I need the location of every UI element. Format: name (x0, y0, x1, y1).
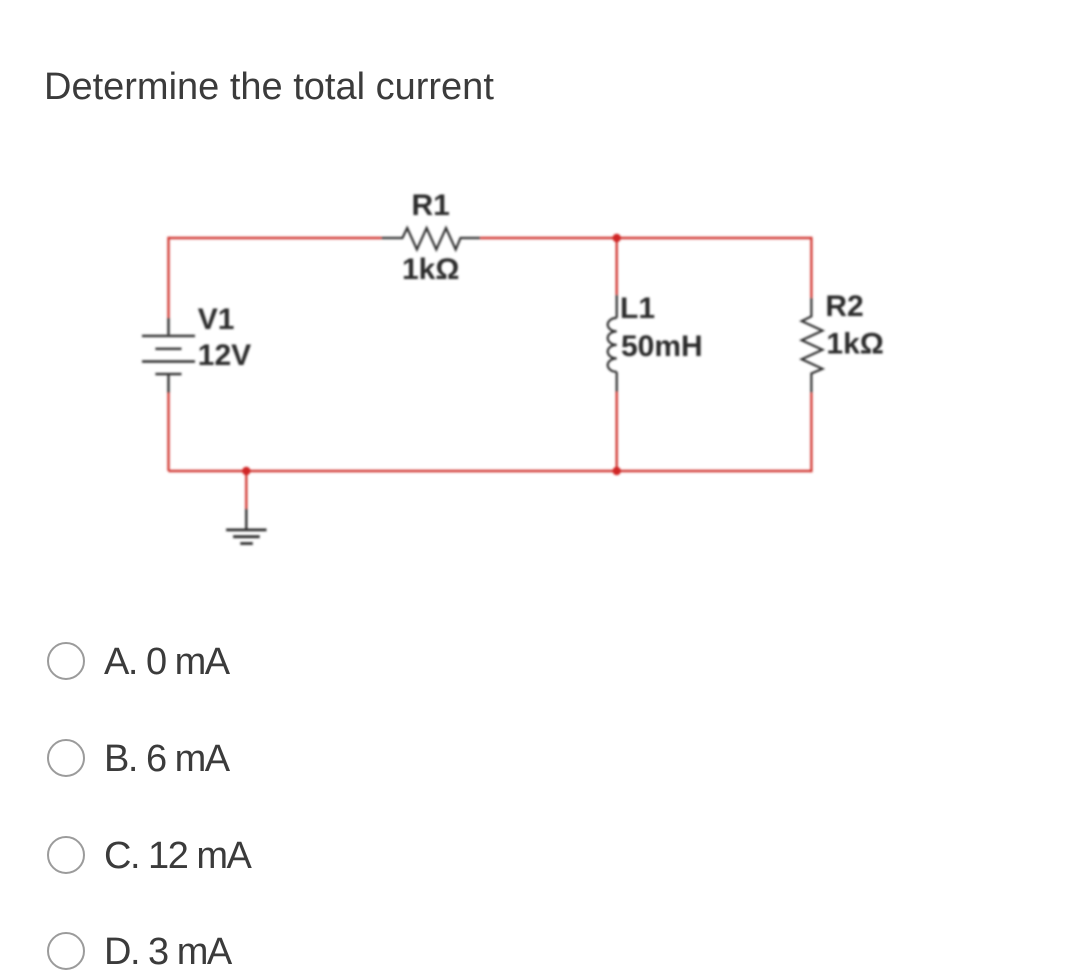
answer option A (47, 642, 647, 682)
node junction dot top middle (613, 234, 621, 242)
node junction dot bottom ground (242, 467, 250, 475)
radio button D (47, 932, 85, 970)
radio button A (47, 642, 85, 680)
radio button B (47, 739, 85, 777)
inductor L1 (608, 295, 617, 392)
node junction dot bottom middle (613, 467, 621, 475)
answer option D (47, 932, 647, 972)
wire bottom horizontal (169, 470, 812, 472)
svg-text:L1: L1 (620, 292, 655, 325)
wire middle branch upper (616, 238, 618, 295)
wire left vertical upper (167, 237, 169, 318)
svg-text:R1: R1 (412, 189, 450, 222)
resistor R2 (802, 298, 823, 393)
radio button C (47, 836, 85, 874)
answer option B (47, 739, 647, 779)
svg-text:1kΩ: 1kΩ (826, 328, 883, 361)
question title (44, 66, 494, 109)
resistor R1 (381, 228, 480, 250)
wire right vertical upper (810, 237, 812, 298)
svg-text:V1: V1 (198, 303, 235, 336)
svg-text:50mH: 50mH (621, 330, 703, 363)
svg-text:12V: 12V (198, 339, 251, 372)
wire left vertical lower (167, 393, 169, 471)
wire middle branch lower (616, 392, 618, 471)
svg-text:1kΩ: 1kΩ (402, 253, 459, 286)
wire ground stub red (245, 471, 247, 509)
wire right vertical lower (810, 393, 812, 472)
battery V1 (142, 318, 195, 393)
wire top-left horizontal (169, 237, 382, 239)
svg-text:R2: R2 (825, 290, 863, 323)
answer option C (47, 836, 647, 876)
ground (226, 509, 266, 544)
circuit schematic (100, 170, 920, 570)
wire top-right horizontal (480, 237, 811, 239)
